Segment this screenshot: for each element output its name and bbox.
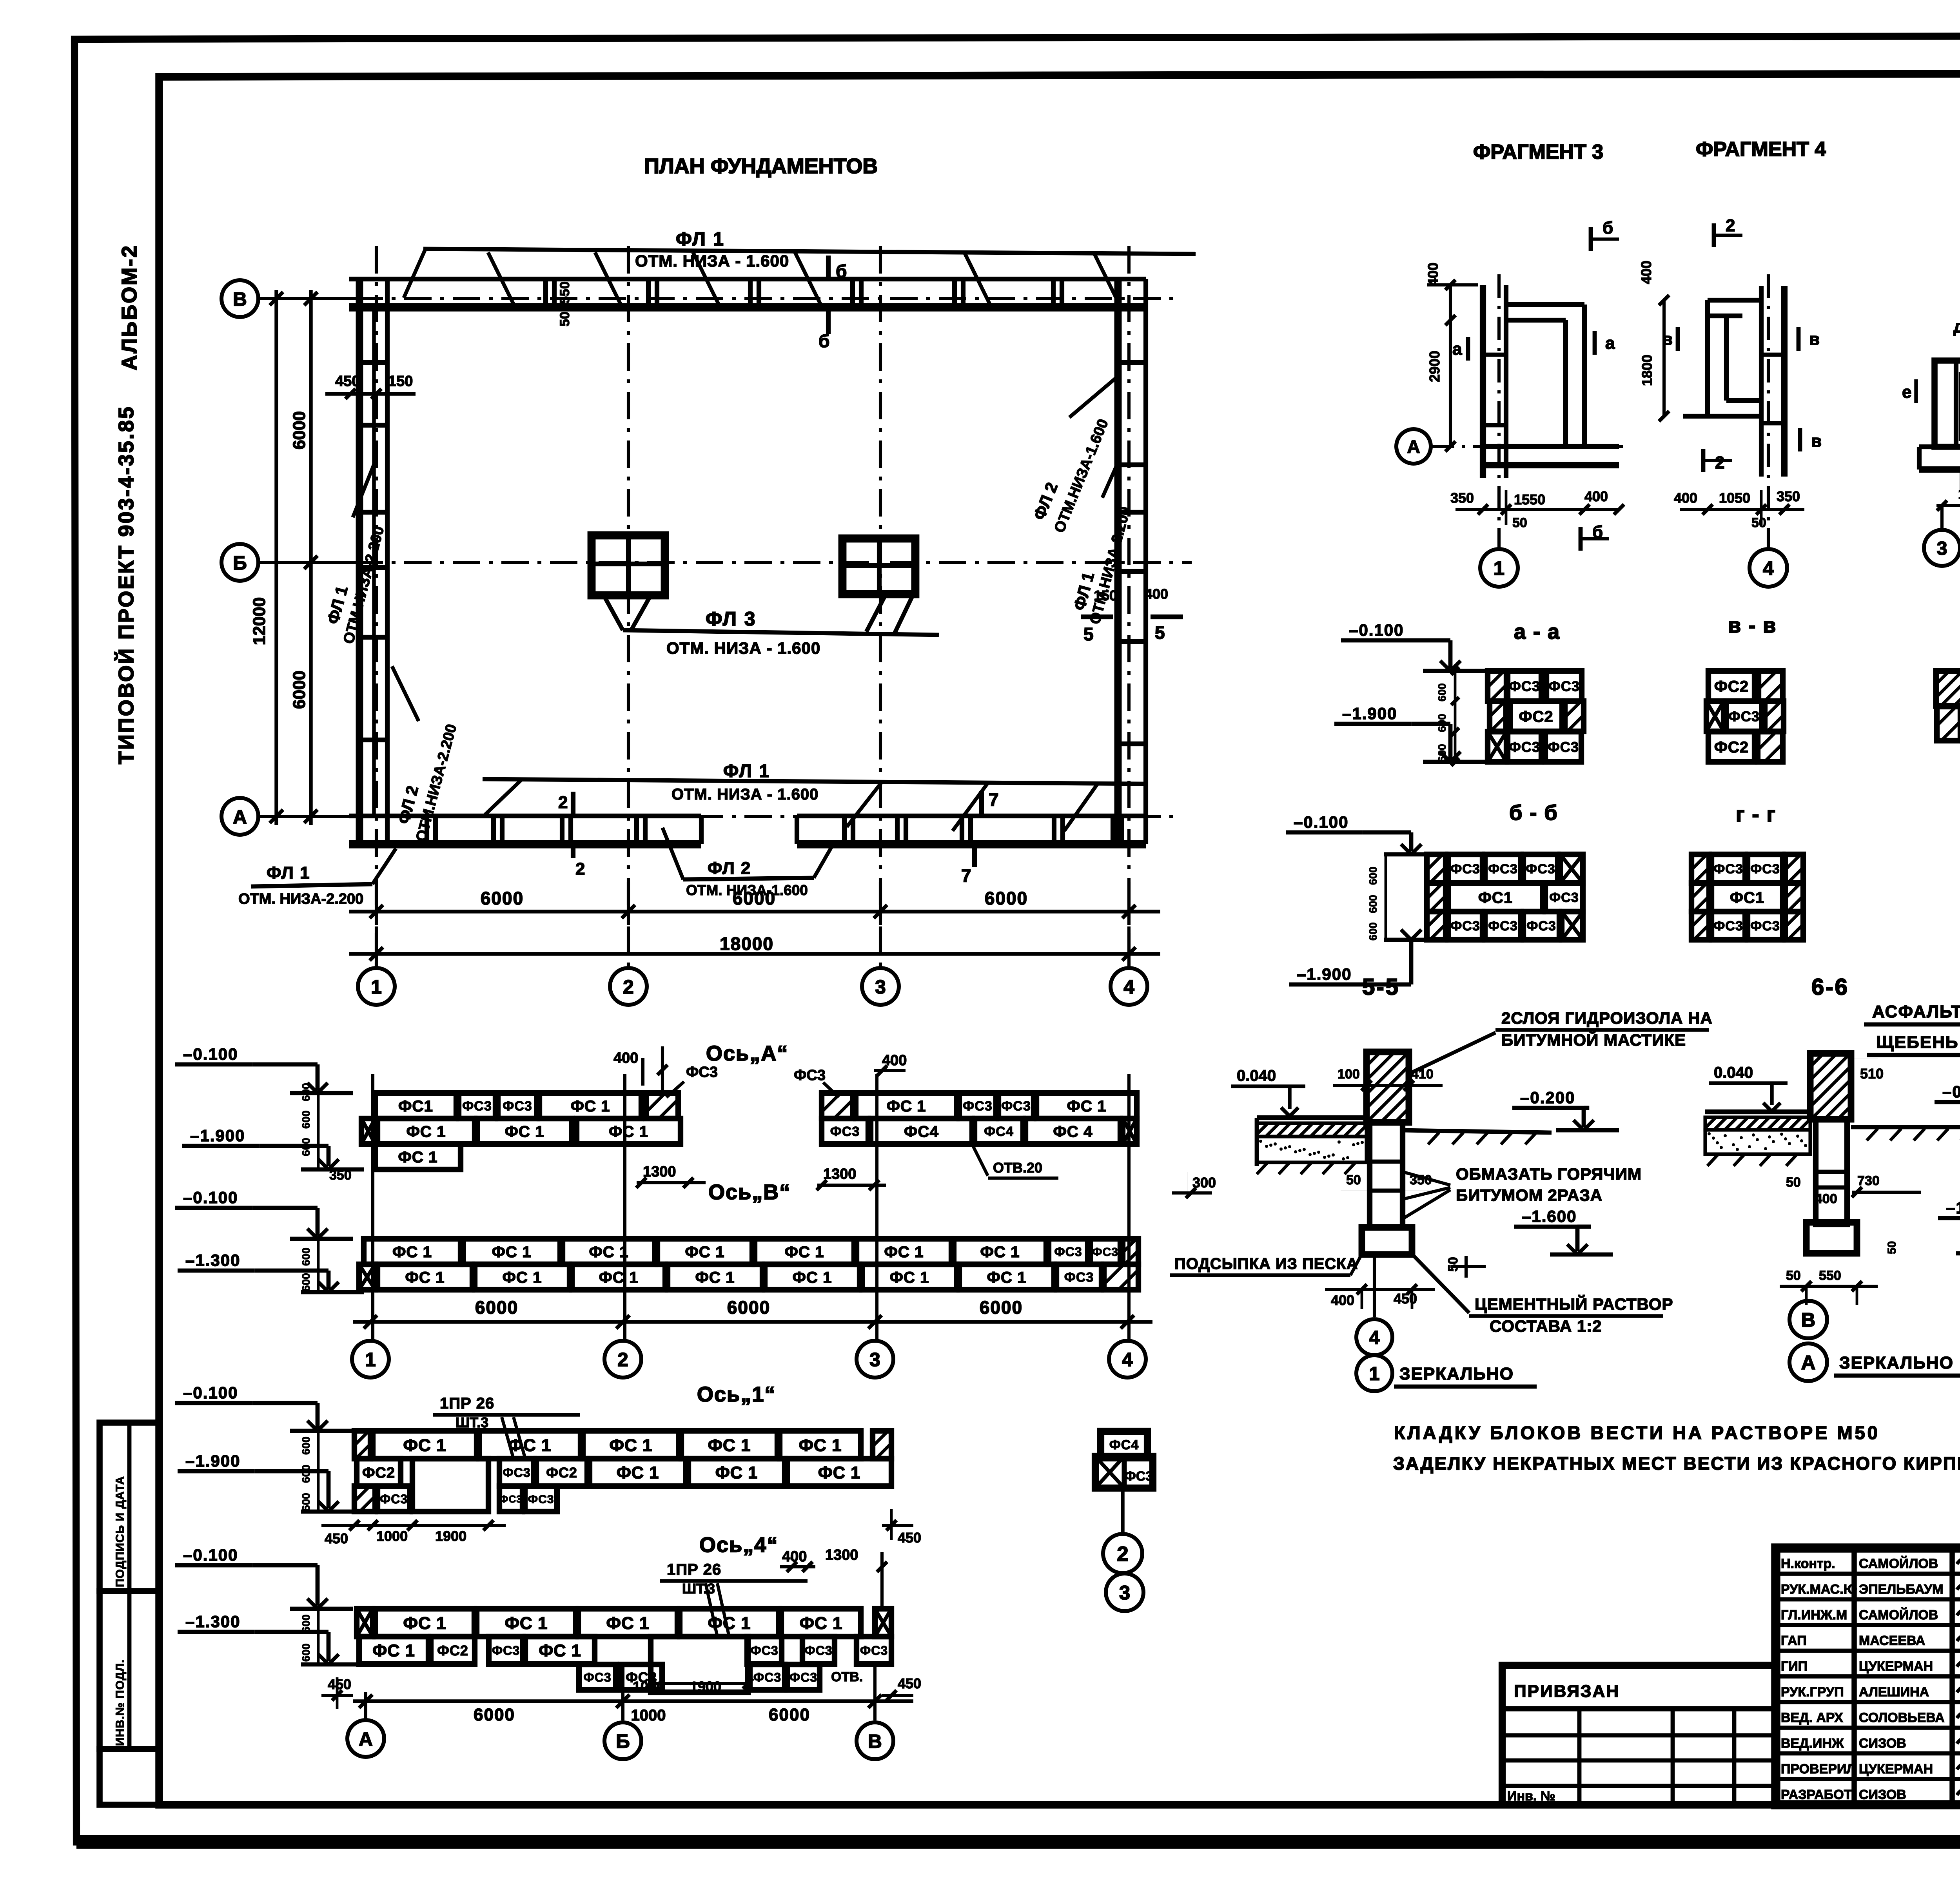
svg-text:12000: 12000 (250, 597, 269, 645)
svg-text:д: д (1953, 317, 1960, 336)
privyazan box (1502, 1665, 1776, 1805)
bottom dimension line 18000 (349, 952, 1160, 955)
svg-text:3: 3 (1119, 1581, 1130, 1604)
svg-text:1300: 1300 (823, 1166, 857, 1182)
svg-text:А: А (359, 1728, 373, 1750)
svg-text:В: В (1801, 1309, 1815, 1331)
svg-text:ФЛ 3: ФЛ 3 (706, 608, 757, 630)
svg-text:400: 400 (1674, 490, 1697, 506)
svg-text:1900: 1900 (690, 1679, 721, 1695)
svg-text:1050: 1050 (1719, 490, 1750, 506)
svg-text:ФС3: ФС3 (789, 1670, 817, 1684)
svg-text:ФС 1: ФС 1 (398, 1148, 437, 1166)
svg-text:ФС1: ФС1 (1730, 889, 1764, 906)
fragment 3 axes (1431, 445, 1623, 448)
svg-text:–0.100: –0.100 (183, 1546, 238, 1564)
svg-text:3: 3 (869, 1349, 880, 1370)
svg-text:б: б (1602, 218, 1613, 237)
svg-text:ФЛ 2: ФЛ 2 (708, 859, 751, 878)
fragment 4 wall plan (1759, 286, 1764, 477)
svg-text:ЩЕБЕНЬ – 150 ММ: ЩЕБЕНЬ – 150 ММ (1876, 1033, 1960, 1052)
svg-text:–0.100: –0.100 (183, 1188, 238, 1207)
svg-text:50: 50 (1446, 1257, 1461, 1272)
svg-text:4: 4 (1763, 557, 1774, 579)
svg-text:–1.600: –1.600 (1946, 1198, 1960, 1217)
svg-text:1: 1 (1369, 1363, 1380, 1384)
svg-text:ЭПЕЛЬБАУМ: ЭПЕЛЬБАУМ (1859, 1582, 1943, 1597)
detail 6-6 floor layers left (1705, 1109, 1810, 1114)
svg-text:ФС2: ФС2 (1519, 708, 1553, 725)
svg-text:а: а (1605, 334, 1615, 353)
svg-text:ФРАГМЕНТ 3: ФРАГМЕНТ 3 (1473, 141, 1603, 163)
svg-text:7: 7 (961, 865, 971, 886)
svg-text:ФС3: ФС3 (492, 1644, 520, 1658)
svg-text:БИТУМОМ 2РАЗА: БИТУМОМ 2РАЗА (1456, 1186, 1602, 1204)
svg-text:ФС3: ФС3 (1450, 919, 1480, 934)
svg-text:РАЗРАБОТ: РАЗРАБОТ (1781, 1787, 1852, 1802)
svg-text:1: 1 (1494, 557, 1504, 579)
svg-text:450: 450 (898, 1675, 921, 1691)
svg-text:ФС 1: ФС 1 (889, 1269, 929, 1286)
svg-text:3: 3 (875, 976, 886, 998)
horizontal axis dash-dot lines (258, 297, 1181, 300)
svg-text:1000: 1000 (631, 1707, 666, 1724)
detail 6-6 axis circles and mirror note (1789, 1301, 1827, 1338)
svg-text:450: 450 (335, 373, 360, 390)
svg-text:ФЛ 1: ФЛ 1 (676, 229, 725, 250)
svg-text:ФС 1: ФС 1 (617, 1464, 659, 1483)
svg-text:1300: 1300 (825, 1547, 858, 1563)
svg-text:ФС3: ФС3 (1548, 739, 1579, 755)
svg-text:ФС4: ФС4 (904, 1123, 939, 1140)
svg-text:ФС1: ФС1 (1478, 889, 1513, 906)
svg-text:600: 600 (300, 1083, 312, 1101)
section g-g block stack (1691, 854, 1709, 883)
svg-text:ОБМАЗАТЬ ГОРЯЧИМ: ОБМАЗАТЬ ГОРЯЧИМ (1456, 1165, 1642, 1183)
svg-text:САМОЙЛОВ: САМОЙЛОВ (1859, 1607, 1938, 1622)
svg-text:а: а (1452, 339, 1462, 359)
svg-text:2: 2 (1726, 216, 1735, 235)
svg-text:–1.600: –1.600 (1522, 1207, 1577, 1225)
section marks 7-7 on bottom wall near axis 3 (979, 791, 984, 814)
svg-text:6000: 6000 (727, 1297, 770, 1318)
svg-text:СОСТАВА 1:2: СОСТАВА 1:2 (1490, 1317, 1602, 1335)
svg-text:в: в (1811, 431, 1822, 451)
title block signature scribbles (1957, 1553, 1960, 1564)
svg-text:б: б (836, 261, 847, 281)
svg-text:ФС3: ФС3 (1092, 1245, 1118, 1258)
svg-text:ФС3: ФС3 (380, 1492, 408, 1506)
svg-text:ФС 1: ФС 1 (406, 1123, 446, 1140)
axis row circles В Б А (221, 280, 258, 317)
svg-text:600: 600 (1436, 714, 1448, 732)
svg-text:400: 400 (1145, 586, 1168, 602)
svg-text:450: 450 (328, 1676, 351, 1692)
svg-text:б: б (818, 331, 829, 351)
svg-text:ЦУКЕРМАН: ЦУКЕРМАН (1859, 1659, 1933, 1674)
detail 5-5 axis circles and mirror note (1373, 1254, 1376, 1317)
fragment 4 axes (1767, 274, 1770, 549)
svg-text:ФС3: ФС3 (1488, 919, 1517, 934)
section b-b block stack (1427, 854, 1446, 883)
svg-text:2: 2 (623, 976, 633, 998)
svg-text:ФС 1: ФС 1 (715, 1464, 758, 1483)
section mark b top wall near axis 2 (826, 256, 831, 281)
svg-text:ЦЕМЕНТНЫЙ РАСТВОР: ЦЕМЕНТНЫЙ РАСТВОР (1475, 1294, 1673, 1313)
svg-text:4: 4 (1369, 1327, 1380, 1348)
Os V vertical axis lines through strips (371, 1074, 374, 1340)
svg-text:4: 4 (1122, 1349, 1133, 1370)
svg-text:100: 100 (1338, 1067, 1360, 1082)
Os 1 opening (412, 1459, 488, 1512)
elevation Os 4 row3 blocks (579, 1664, 616, 1690)
fragment 5 bottom band and right pillar (1919, 444, 1960, 449)
svg-text:ФС3: ФС3 (963, 1099, 992, 1114)
svg-text:ФС3: ФС3 (503, 1099, 532, 1114)
Os V axis circles 1-4 (352, 1341, 389, 1378)
svg-text:ФС3: ФС3 (1509, 678, 1540, 694)
svg-text:ФС2: ФС2 (362, 1465, 395, 1481)
svg-text:1550: 1550 (1514, 491, 1545, 508)
svg-text:ОТМ. НИЗА - 1.600: ОТМ. НИЗА - 1.600 (671, 786, 818, 803)
svg-text:600: 600 (1367, 895, 1379, 913)
svg-text:ШТ.3: ШТ.3 (682, 1581, 715, 1597)
svg-text:ОТВ.20: ОТВ.20 (993, 1160, 1042, 1176)
svg-text:ФС3: ФС3 (1713, 919, 1743, 934)
svg-text:350: 350 (1450, 490, 1474, 506)
svg-text:ФС3: ФС3 (750, 1644, 778, 1658)
svg-text:1ПР 26: 1ПР 26 (440, 1395, 494, 1412)
svg-text:СИЗОВ: СИЗОВ (1859, 1736, 1906, 1751)
elevation Os 4 row2 blocks (359, 1637, 428, 1664)
svg-text:СИЗОВ: СИЗОВ (1859, 1787, 1906, 1802)
svg-text:–0.100: –0.100 (1349, 621, 1404, 639)
svg-text:–0.100: –0.100 (183, 1045, 238, 1063)
svg-text:ФС 1: ФС 1 (792, 1269, 832, 1286)
svg-text:–1.300: –1.300 (185, 1251, 240, 1269)
svg-text:ЗЕРКАЛЬНО: ЗЕРКАЛЬНО (1399, 1364, 1514, 1383)
svg-text:ФС3: ФС3 (1509, 739, 1540, 755)
svg-text:МАСЕЕВА: МАСЕЕВА (1859, 1633, 1925, 1648)
section a-a block stack (1488, 671, 1506, 701)
svg-text:2: 2 (1117, 1543, 1128, 1566)
svg-text:600: 600 (300, 1273, 312, 1291)
svg-text:ФС2: ФС2 (1714, 678, 1749, 695)
svg-text:АЛЬБОМ-2: АЛЬБОМ-2 (118, 244, 141, 370)
svg-text:ФС 1: ФС 1 (987, 1269, 1026, 1286)
detail 5-5 floor layers left (1257, 1115, 1367, 1120)
svg-text:Инв. №: Инв. № (1507, 1789, 1555, 1804)
svg-text:600: 600 (300, 1436, 312, 1455)
svg-text:Б: Б (233, 552, 247, 574)
svg-text:5: 5 (1083, 624, 1094, 644)
svg-text:0.040: 0.040 (1237, 1067, 1276, 1084)
elevation Os 1 row2 blocks (357, 1459, 401, 1486)
svg-text:ФС 4: ФС 4 (1053, 1123, 1093, 1140)
svg-text:50: 50 (1886, 1241, 1898, 1254)
svg-text:ВЕД.ИНЖ: ВЕД.ИНЖ (1781, 1736, 1844, 1751)
svg-text:ЗАДЕЛКУ НЕКРАТНЫХ МЕСТ ВЕСТ: ЗАДЕЛКУ НЕКРАТНЫХ МЕСТ ВЕСТИ ИЗ КРАСНОГО… (1393, 1453, 1960, 1474)
Os 1 bottom dims (321, 1524, 506, 1527)
svg-text:1350: 1350 (1958, 486, 1960, 502)
section e-e long strip with hatch band (1936, 671, 1960, 706)
svg-text:ФС3: ФС3 (1750, 862, 1780, 877)
svg-text:в: в (1662, 330, 1673, 349)
section marks 5-5 on right wall (1081, 615, 1113, 619)
svg-text:ФС 1: ФС 1 (784, 1243, 824, 1261)
svg-text:50: 50 (1346, 1173, 1361, 1187)
svg-text:б - б: б - б (1509, 801, 1558, 825)
svg-text:ФС 1: ФС 1 (799, 1436, 842, 1455)
elevation Os V row1 blocks (364, 1239, 461, 1264)
svg-text:ФС3: ФС3 (499, 1493, 522, 1505)
svg-text:ФС3: ФС3 (528, 1493, 554, 1506)
fragment 5 bottom dims (1936, 504, 1960, 507)
svg-text:ПЛАН ФУНДАМЕНТОВ: ПЛАН ФУНДАМЕНТОВ (644, 154, 878, 178)
left side stamp boxes with rotated captions (100, 1423, 159, 1591)
svg-text:400: 400 (1815, 1191, 1837, 1206)
detail 5-5 wall column with hatched top (1367, 1052, 1409, 1122)
svg-text:А: А (1407, 437, 1420, 457)
fragment 3 wall plan (1480, 285, 1486, 478)
svg-text:3: 3 (1937, 538, 1947, 559)
svg-text:6000: 6000 (290, 671, 309, 709)
svg-text:ФС 1: ФС 1 (570, 1097, 610, 1115)
pier foundation FL3 right (842, 538, 915, 594)
svg-text:ФС2: ФС2 (1714, 739, 1749, 756)
svg-text:ФС3: ФС3 (1064, 1270, 1094, 1285)
svg-text:ФС3: ФС3 (1526, 862, 1555, 877)
svg-text:–0.100: –0.100 (1294, 813, 1348, 831)
svg-text:2: 2 (558, 793, 568, 812)
svg-text:1800: 1800 (1639, 355, 1655, 386)
svg-text:6000: 6000 (733, 888, 776, 908)
svg-text:ОТВ.: ОТВ. (831, 1670, 863, 1684)
svg-text:ПОДСЫПКА ИЗ ПЕСКА: ПОДСЫПКА ИЗ ПЕСКА (1174, 1255, 1358, 1273)
svg-text:350: 350 (1777, 488, 1800, 504)
vertical axis dash-dot lines with column circles below (375, 246, 378, 967)
svg-text:Ось„В“: Ось„В“ (708, 1180, 791, 1204)
svg-text:ФС3: ФС3 (794, 1067, 826, 1084)
svg-text:ТИПОВОЙ ПРОЕКТ 903-4-35.85: ТИПОВОЙ ПРОЕКТ 903-4-35.85 (114, 405, 138, 764)
top wall row B with blocks (349, 277, 1146, 281)
svg-text:150: 150 (388, 373, 413, 390)
svg-text:2: 2 (617, 1349, 628, 1370)
svg-text:ФС 1: ФС 1 (502, 1269, 542, 1286)
svg-text:1000: 1000 (376, 1528, 408, 1544)
svg-text:ФС 1: ФС 1 (980, 1243, 1020, 1261)
left dimension lines 6000/6000 and 12000 (309, 290, 312, 825)
svg-text:ФРАГМЕНТ 4: ФРАГМЕНТ 4 (1696, 138, 1826, 161)
svg-text:ФС 1: ФС 1 (508, 1436, 551, 1455)
svg-text:ФС3: ФС3 (1125, 1469, 1153, 1484)
svg-text:ФС 1: ФС 1 (1067, 1097, 1106, 1115)
svg-text:450: 450 (898, 1530, 921, 1546)
svg-text:600: 600 (1367, 867, 1379, 885)
svg-text:–0.100: –0.100 (183, 1383, 238, 1402)
svg-text:ФС 1: ФС 1 (405, 1269, 445, 1286)
svg-text:6000: 6000 (985, 888, 1028, 908)
svg-text:50: 50 (1512, 515, 1527, 530)
svg-text:ИНВ.№ ПОДЛ.: ИНВ.№ ПОДЛ. (114, 1659, 127, 1746)
svg-text:ФС 1: ФС 1 (818, 1464, 861, 1483)
svg-text:АЛЕШИНА: АЛЕШИНА (1859, 1685, 1929, 1700)
svg-text:550: 550 (557, 281, 572, 304)
svg-text:ФС 1: ФС 1 (799, 1613, 842, 1633)
svg-text:в: в (1809, 330, 1820, 349)
svg-text:18000: 18000 (720, 934, 774, 954)
svg-text:А: А (233, 806, 247, 828)
svg-text:ФС 1: ФС 1 (392, 1243, 432, 1261)
svg-text:6000: 6000 (290, 411, 309, 450)
svg-text:ФС 1: ФС 1 (695, 1269, 735, 1286)
svg-text:ФС3: ФС3 (1450, 862, 1480, 877)
svg-text:600: 600 (300, 1493, 312, 1511)
svg-text:А: А (1801, 1351, 1815, 1374)
svg-text:ЦУКЕРМАН: ЦУКЕРМАН (1859, 1762, 1933, 1777)
svg-text:ФС 1: ФС 1 (606, 1613, 649, 1633)
svg-text:600: 600 (300, 1110, 312, 1129)
svg-text:ФС3: ФС3 (686, 1064, 718, 1080)
svg-text:–1.900: –1.900 (185, 1452, 240, 1470)
svg-text:КЛАДКУ БЛОКОВ ВЕСТИ НА РА: КЛАДКУ БЛОКОВ ВЕСТИ НА РАСТВОРЕ М50 (1394, 1422, 1880, 1443)
svg-text:–1.300: –1.300 (185, 1612, 240, 1631)
svg-text:1300: 1300 (643, 1164, 676, 1180)
svg-text:0.040: 0.040 (1714, 1064, 1753, 1081)
svg-text:САМОЙЛОВ: САМОЙЛОВ (1859, 1556, 1938, 1571)
title block signature table (1776, 1572, 1960, 1576)
svg-text:600: 600 (1367, 922, 1379, 941)
svg-text:6000: 6000 (481, 888, 524, 908)
elevation Os A left part blocks (375, 1093, 456, 1118)
svg-text:АСФАЛЬТ – 30 ММ: АСФАЛЬТ – 30 ММ (1872, 1002, 1960, 1021)
svg-text:ФС2: ФС2 (437, 1642, 468, 1659)
svg-text:ФС3: ФС3 (1001, 1099, 1031, 1114)
svg-text:В: В (868, 1731, 882, 1752)
pier foundation FL3 left (592, 535, 665, 595)
svg-text:450: 450 (325, 1530, 348, 1546)
svg-text:ФС 1: ФС 1 (539, 1642, 581, 1661)
svg-text:ФЛ 1: ФЛ 1 (267, 863, 310, 883)
svg-text:600: 600 (300, 1614, 312, 1633)
detail 5-5 foundation pad (1362, 1227, 1412, 1254)
svg-text:г - г: г - г (1736, 803, 1776, 826)
svg-text:ФС3: ФС3 (1549, 890, 1579, 905)
svg-text:6000: 6000 (474, 1705, 515, 1724)
svg-text:Н.контр.: Н.контр. (1781, 1556, 1835, 1571)
svg-text:РУК.ГРУП: РУК.ГРУП (1781, 1685, 1844, 1700)
svg-text:Ось„А“: Ось„А“ (706, 1042, 788, 1065)
svg-text:2: 2 (575, 859, 585, 879)
svg-text:6000: 6000 (475, 1297, 518, 1318)
svg-text:400: 400 (1331, 1292, 1354, 1308)
FL3 callout with leaders (623, 630, 939, 635)
svg-text:СОЛОВЬЕВА: СОЛОВЬЕВА (1859, 1710, 1945, 1725)
svg-text:ФС 1: ФС 1 (708, 1436, 751, 1455)
svg-text:50: 50 (1751, 515, 1766, 530)
svg-text:ФС3: ФС3 (1548, 678, 1580, 694)
svg-text:ФС3: ФС3 (503, 1466, 530, 1480)
svg-text:400: 400 (613, 1050, 638, 1066)
svg-text:1: 1 (365, 1349, 376, 1370)
svg-text:ФЛ 1: ФЛ 1 (723, 761, 770, 781)
detail 5-5 ground line right (1403, 1130, 1552, 1133)
svg-text:ФС3: ФС3 (1526, 919, 1556, 934)
svg-text:Ось„4“: Ось„4“ (699, 1533, 778, 1557)
svg-text:510: 510 (1860, 1066, 1884, 1082)
bottom wall row A blocks with door gap (349, 814, 701, 818)
thick bottom border line (76, 1835, 1960, 1849)
svg-text:ФС3: ФС3 (860, 1644, 888, 1658)
svg-text:5-5: 5-5 (1362, 974, 1400, 1000)
svg-text:ФС 1: ФС 1 (609, 1436, 652, 1455)
svg-text:а - а: а - а (1514, 620, 1560, 644)
right wall column 4 with blocks (1114, 279, 1122, 844)
svg-text:ФС1: ФС1 (398, 1097, 433, 1115)
svg-text:–0.200: –0.200 (1942, 1082, 1960, 1101)
svg-text:2: 2 (1715, 453, 1724, 472)
svg-text:ОТМ. НИЗА - 1.600: ОТМ. НИЗА - 1.600 (635, 252, 789, 270)
svg-text:600: 600 (300, 1138, 312, 1156)
svg-text:1: 1 (371, 976, 381, 998)
svg-text:400: 400 (1425, 263, 1441, 286)
svg-text:ПОДПИСЬ И ДАТА: ПОДПИСЬ И ДАТА (114, 1476, 127, 1587)
svg-text:ФС 1: ФС 1 (609, 1123, 648, 1140)
svg-text:Б: Б (616, 1731, 630, 1752)
svg-text:ФС3: ФС3 (804, 1644, 832, 1658)
svg-text:ФС 1: ФС 1 (886, 1097, 926, 1115)
section marks 2-2 on bottom wall (571, 792, 575, 814)
detail 6-6 foundation pad (1806, 1222, 1857, 1253)
svg-text:350: 350 (329, 1168, 352, 1183)
svg-text:ФС3: ФС3 (1488, 862, 1517, 877)
svg-text:ФС3: ФС3 (583, 1670, 611, 1684)
svg-text:ГИП: ГИП (1781, 1659, 1808, 1674)
svg-text:в - в: в - в (1728, 614, 1777, 637)
svg-text:ОТМ. НИЗА-2.200: ОТМ. НИЗА-2.200 (238, 891, 363, 907)
svg-text:ФС3: ФС3 (753, 1670, 781, 1684)
svg-text:1900: 1900 (435, 1528, 466, 1544)
section v-v block stack (1708, 671, 1755, 701)
title block outer frame (1776, 1548, 1960, 1805)
svg-text:ПРОВЕРИЛ: ПРОВЕРИЛ (1781, 1762, 1856, 1777)
svg-text:ФС 1: ФС 1 (599, 1269, 638, 1286)
svg-text:ФС 1: ФС 1 (505, 1123, 544, 1140)
svg-text:6000: 6000 (769, 1705, 810, 1724)
svg-text:ФС 1: ФС 1 (372, 1642, 415, 1661)
svg-text:600: 600 (1436, 683, 1448, 702)
svg-text:ФС3: ФС3 (1750, 919, 1780, 934)
left wall column 1 with blocks (356, 279, 363, 844)
svg-text:ЗЕРКАЛЬНО: ЗЕРКАЛЬНО (1839, 1353, 1954, 1372)
svg-text:7: 7 (989, 789, 999, 810)
svg-text:2СЛОЯ ГИДРОИЗОЛА НА: 2СЛОЯ ГИДРОИЗОЛА НА (1501, 1009, 1713, 1027)
svg-text:ФС3: ФС3 (1728, 708, 1760, 724)
detail 6-6 wall column (1810, 1053, 1851, 1119)
svg-text:ФС3: ФС3 (462, 1099, 492, 1114)
svg-text:50: 50 (1786, 1268, 1801, 1283)
svg-text:4: 4 (1123, 976, 1134, 998)
svg-text:550: 550 (1819, 1268, 1841, 1283)
svg-text:6000: 6000 (980, 1297, 1023, 1318)
svg-text:600: 600 (300, 1643, 312, 1662)
svg-text:ПРИВЯЗАН: ПРИВЯЗАН (1514, 1682, 1620, 1701)
svg-text:ГАП: ГАП (1781, 1633, 1807, 1648)
svg-text:ФС4: ФС4 (1109, 1438, 1139, 1452)
svg-text:е: е (1902, 383, 1911, 402)
svg-text:ФС3: ФС3 (1054, 1245, 1082, 1259)
svg-text:50: 50 (1786, 1175, 1801, 1190)
